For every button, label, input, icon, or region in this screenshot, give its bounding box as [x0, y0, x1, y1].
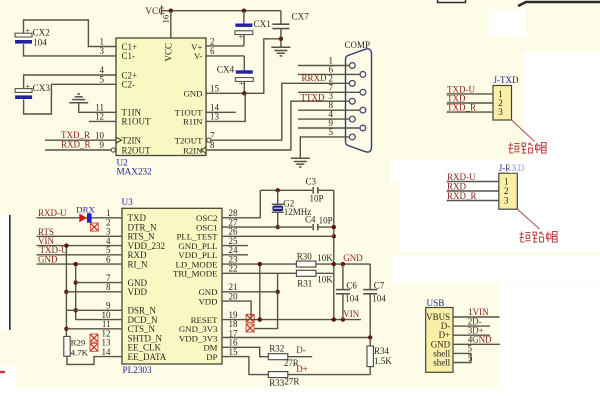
wire CX7 node to U2 GND pin15	[206, 39, 281, 94]
connector USB body	[426, 308, 453, 373]
wire U3 TRI_MODE pin22 through R31	[222, 272, 296, 274]
svg-text:10: 10	[95, 130, 105, 140]
svg-text:104: 104	[345, 294, 359, 304]
connector J-TXD body	[493, 86, 512, 121]
svg-text:1: 1	[504, 177, 509, 187]
wire U3 EE_DATA pin14 to R29 bottom	[67, 356, 122, 364]
junction GND bus pin7	[74, 280, 78, 284]
svg-text:C1-: C1-	[122, 51, 136, 61]
svg-text:22: 22	[229, 264, 238, 274]
resistor R29	[64, 336, 70, 356]
sheet border line left	[9, 215, 11, 330]
wire U2 R1OUT pin12 stub	[89, 120, 116, 122]
wire U3 GND pin7	[76, 282, 122, 284]
wire COMP pin8 stub	[298, 109, 360, 111]
wire GND to U3 RI_N pin6	[37, 263, 123, 265]
junction pin17 row / C7 / R34	[368, 335, 372, 339]
junction VIN row osc vertical	[332, 317, 336, 321]
capacitor C6	[342, 264, 344, 290]
wire U3 LD_MODE pin23 through R30	[222, 263, 296, 265]
wire USB D+ pin3 stub	[453, 334, 490, 336]
wire RXD_R to J-RXD pin3	[447, 200, 499, 202]
no-connect X at U3 GND_3V3 pin18	[246, 324, 254, 332]
svg-text:R1OUT: R1OUT	[122, 117, 152, 127]
wire TXD_R to J-TXD pin3	[447, 111, 493, 113]
svg-text:R29: R29	[71, 338, 86, 348]
svg-text:9: 9	[100, 140, 105, 150]
svg-text:PL2303: PL2303	[123, 365, 153, 375]
white canvas gap right C	[392, 255, 600, 283]
svg-text:CX4: CX4	[217, 65, 235, 75]
svg-text:5: 5	[100, 75, 105, 85]
white canvas gap bottom-right	[499, 284, 600, 396]
resistor R31	[296, 270, 316, 276]
junction G2 bottom	[276, 225, 280, 229]
wire COMP pin1 stub	[298, 65, 350, 67]
wire LD_MODE tap down to VIN row	[259, 264, 261, 320]
svg-text:MAX232: MAX232	[117, 167, 153, 177]
wire U3 DP pin15 to R33	[222, 357, 268, 375]
svg-text:RXD-U: RXD-U	[38, 208, 67, 218]
note text short-circuit cap 2	[520, 232, 558, 243]
svg-text:TXD_R: TXD_R	[447, 103, 476, 113]
svg-text:5: 5	[468, 353, 473, 363]
wire TRI_MODE tap down to GND_3V3	[254, 273, 278, 328]
svg-text:16: 16	[160, 14, 170, 23]
white canvas gap right B	[524, 52, 600, 168]
crystal G2	[277, 190, 279, 204]
no-connect X at U3 SHTD_N pin12	[90, 334, 98, 342]
wire GND vertical bus	[75, 264, 77, 320]
wire VIN to U3 VDD_232 pin4	[37, 245, 123, 247]
junction CX7/ground	[279, 37, 283, 41]
junction G2 top	[276, 188, 280, 192]
white bottom band	[0, 387, 600, 396]
svg-text:RXD_R: RXD_R	[447, 191, 477, 201]
inversion bubble U2 T2OUT	[207, 138, 211, 142]
svg-text:GND: GND	[472, 335, 492, 345]
op-amp U2 MAX232 body	[116, 38, 206, 156]
svg-text:20: 20	[229, 291, 239, 301]
no-connect X at U3 EE_CLK pin13	[90, 343, 98, 351]
junction osc vertical C4	[332, 225, 336, 229]
wire U3 DSR_N pin9	[66, 309, 122, 311]
svg-text:U3: U3	[122, 197, 134, 207]
svg-text:USB: USB	[427, 298, 445, 308]
svg-text:T2IN: T2IN	[122, 136, 142, 146]
white canvas gap middle-right	[400, 183, 600, 252]
capacitor CX3	[15, 89, 32, 93]
wire CX3 top to U2 C2+ pin4	[24, 75, 116, 89]
svg-text:10P: 10P	[319, 215, 333, 225]
wire U3 VDD_PLL pin24 stub	[222, 254, 248, 256]
svg-text:6: 6	[210, 46, 215, 56]
wire U2 R1IN pin13 to GND row	[206, 93, 245, 121]
svg-text:+: +	[25, 81, 30, 91]
capacitor CX1	[243, 11, 245, 24]
svg-text:1.5K: 1.5K	[374, 356, 392, 366]
junction CX4/GND row	[242, 91, 246, 95]
resistor R32	[268, 354, 288, 360]
COMP pin circles right column	[360, 72, 366, 78]
wire CX3 bottom to U2 C2- pin5	[24, 84, 116, 114]
wire COMP pin9 stub	[298, 127, 360, 129]
COMP pin circles left column	[349, 63, 355, 69]
wire oscillator ground vertical	[333, 190, 335, 319]
svg-text:C2-: C2-	[122, 80, 136, 90]
junction GND bus pin6	[74, 262, 78, 266]
wire U2 pin16 to VCC rail	[170, 11, 172, 38]
svg-text:T2OUT: T2OUT	[175, 136, 203, 146]
wire U3 DCD_N pin10	[76, 319, 122, 321]
resistor R33	[268, 372, 288, 378]
svg-text:J-TXD: J-TXD	[494, 75, 519, 85]
wire OSC2 row through C3	[260, 189, 312, 191]
svg-text:R2OUT: R2OUT	[122, 145, 152, 155]
pointer line to short-cap note 1	[512, 120, 535, 142]
svg-text:3: 3	[504, 196, 509, 206]
svg-text:VDD: VDD	[198, 296, 217, 306]
svg-text:RRXD: RRXD	[302, 73, 328, 83]
svg-text:15: 15	[229, 347, 239, 357]
svg-text:RXD-U: RXD-U	[447, 172, 476, 182]
wire U3 CTS_N pin11	[66, 328, 122, 330]
wire VIN vertical bus to R29	[65, 246, 67, 337]
svg-text:DRX: DRX	[76, 205, 95, 215]
resistor R34	[369, 338, 371, 347]
wire TXD-U to U3 RXD pin5	[37, 254, 123, 256]
wire RXD-U to J-RXD pin1	[447, 181, 499, 183]
svg-text:R33: R33	[269, 378, 285, 388]
svg-text:R30: R30	[297, 251, 313, 261]
wire TXD_R to U2 T2IN pin10	[45, 139, 116, 141]
svg-text:8: 8	[106, 282, 111, 292]
connector J-RXD body	[499, 173, 518, 209]
wire RXD to J-RXD pin2	[447, 190, 499, 192]
junction TRI tap / pin21 row	[275, 290, 279, 294]
wire R31 right end	[316, 272, 334, 274]
wire RXD-U to U3 TXD pin1	[37, 217, 123, 219]
svg-text:10K: 10K	[317, 274, 333, 284]
svg-text:R32: R32	[269, 343, 284, 353]
wire U3 VDD pin20 jog down	[222, 301, 251, 320]
mcu U3 PL2303 body	[122, 208, 222, 364]
capacitor CX4	[243, 56, 245, 70]
wire U2 V- pin6 to CX4	[206, 55, 244, 57]
black line top-right	[518, 2, 600, 6]
junction VIN bus pin4	[64, 243, 68, 247]
wire COMP pin5 to ground	[300, 137, 349, 158]
no-connect X at U3 RESET pin19	[246, 314, 254, 322]
junction R30 row / C6 tap	[341, 262, 345, 266]
wire U3 PLL_TEST pin26	[222, 235, 334, 237]
wire RTS to U3 RTS_N pin3	[37, 235, 123, 237]
svg-text:3: 3	[100, 46, 105, 56]
svg-text:shell: shell	[433, 358, 450, 368]
wire COMP pin7 stub	[298, 91, 360, 93]
white canvas gap middle-right upper strip	[390, 160, 600, 183]
svg-text:15: 15	[210, 84, 220, 94]
white redraw artifact over J-RXD designator	[509, 162, 527, 173]
svg-text:27R: 27R	[284, 377, 299, 387]
svg-text:10K: 10K	[317, 253, 333, 263]
svg-text:R34: R34	[374, 346, 390, 356]
svg-text:R31: R31	[297, 278, 312, 288]
svg-text:13: 13	[210, 112, 220, 122]
wire VIN row	[222, 319, 361, 321]
svg-text:CX2: CX2	[33, 28, 51, 38]
pointer line to short-cap note 2	[517, 209, 539, 229]
resistor R30	[296, 261, 316, 267]
junction VIN row tap	[258, 317, 262, 321]
junction R30 row / osc vertical	[332, 262, 336, 266]
junction osc vertical pin26	[332, 234, 336, 238]
wire R34 bottom to DP net	[369, 367, 371, 375]
wire U3 GND_PLL pin25 stub	[222, 245, 248, 247]
svg-text:+: +	[239, 78, 244, 88]
svg-text:GND: GND	[343, 253, 363, 263]
wire ground to U2 T1IN pin11	[79, 103, 116, 113]
svg-text:RI_N: RI_N	[128, 259, 149, 269]
wire USB GND pin4 stub	[453, 343, 500, 345]
svg-text:CX3: CX3	[33, 83, 51, 93]
wire U2 T1OUT pin14 stub	[206, 111, 236, 113]
capacitor CX7	[280, 11, 282, 25]
svg-text:GND: GND	[183, 89, 202, 99]
svg-text:12: 12	[95, 112, 104, 122]
ground symbol at U2 T1IN	[69, 94, 88, 103]
svg-text:C7: C7	[374, 281, 385, 291]
wire U2 R2IN to COMP pin3 (TTXD)	[206, 101, 350, 150]
wire R30 to GND node	[316, 263, 370, 265]
wire VCC rail	[162, 10, 281, 12]
svg-text:RXD_R: RXD_R	[61, 140, 91, 150]
svg-text:104: 104	[372, 294, 386, 304]
inversion bubble U2 R2OUT	[111, 148, 115, 152]
wire R32 to D- label	[288, 356, 312, 358]
svg-text:VDD: VDD	[128, 287, 148, 297]
svg-text:RXD: RXD	[447, 182, 467, 192]
wire TXD-U to J-TXD pin1	[447, 93, 493, 95]
junction VIN bus pin8	[64, 290, 68, 294]
svg-text:+: +	[239, 32, 244, 42]
svg-text:GND: GND	[38, 254, 58, 264]
svg-text:C3: C3	[306, 176, 317, 186]
ground symbol below COMP	[291, 158, 310, 167]
svg-text:10P: 10P	[310, 194, 324, 204]
svg-text:14: 14	[102, 347, 112, 357]
svg-text:D-: D-	[296, 345, 306, 355]
capacitor C7	[369, 264, 371, 290]
svg-text:104: 104	[33, 38, 47, 48]
svg-text:3: 3	[498, 107, 503, 117]
connector COMP DB9 outline	[346, 49, 372, 152]
white left sheet-edge strip	[0, 215, 9, 330]
svg-text:CX1: CX1	[254, 19, 272, 29]
wire USB VBUS pin1 stub	[453, 316, 500, 318]
svg-text:VCC: VCC	[164, 43, 174, 62]
wire CX1 to U2 V+ pin2	[206, 45, 244, 47]
wire R33 to R34 bottom (D+ net)	[288, 374, 370, 376]
svg-text:CX7: CX7	[292, 12, 310, 22]
wire U3 VDD pin8	[66, 291, 122, 293]
svg-text:C4: C4	[305, 215, 316, 225]
wire USB D- pin2 stub	[453, 325, 490, 327]
cut-off component box top edge	[438, 0, 466, 3]
svg-text:C6: C6	[346, 281, 357, 291]
svg-text:TRI_MODE: TRI_MODE	[173, 269, 217, 279]
wire CX2 top to U2 C1+ pin1	[24, 20, 117, 47]
svg-text:R1IN: R1IN	[183, 117, 203, 127]
svg-text:TXD_R: TXD_R	[61, 130, 90, 140]
svg-text:D+: D+	[296, 364, 308, 374]
svg-text:DP: DP	[206, 352, 217, 362]
junction VCC/CX1	[242, 9, 246, 13]
junction VIN row C6	[341, 317, 345, 321]
svg-text:+: +	[25, 25, 30, 35]
junction tap top	[258, 262, 262, 266]
U2 pin arrow R2IN	[201, 147, 206, 153]
junction GND bus pin9	[74, 308, 78, 312]
wire RXD_R to U2 R2OUT pin9	[45, 149, 111, 151]
wire U3 GND pin21	[222, 291, 278, 293]
wire U3 OSC1 pin27 through C4	[222, 226, 312, 228]
wire U3 DM pin16 to R32	[222, 347, 268, 356]
svg-text:4.7K: 4.7K	[71, 347, 89, 357]
junction VIN bus pin11	[64, 327, 68, 331]
wire COMP pin4 stub	[298, 118, 350, 120]
wire U3 OSC2 pin28 riser	[222, 190, 260, 218]
wire U2 T2OUT to COMP pin2 (RRXD)	[211, 83, 350, 140]
ground symbol near CX7	[271, 47, 290, 56]
diode DRX	[79, 214, 87, 223]
white bottom-left corner	[0, 366, 16, 396]
wire CX2 bottom to U2 C1- pin3	[24, 44, 117, 56]
svg-text:VIN: VIN	[343, 309, 359, 319]
no-connect X at U3 DTR_N pin2	[90, 223, 98, 231]
capacitor CX2	[15, 33, 32, 37]
red mark fragment left edge	[0, 371, 5, 373]
wire USB shell pin5 bracket	[453, 353, 471, 362]
white canvas gap top-right A	[489, 9, 526, 36]
svg-text:EE_DATA: EE_DATA	[128, 352, 167, 362]
wire COMP pin6 stub	[298, 73, 360, 75]
svg-text:6: 6	[106, 254, 111, 264]
wire U3 VDD_3V3 pin17 row	[222, 337, 370, 339]
U2 pin arrow T2IN	[116, 137, 122, 143]
wire TXD to J-TXD pin2	[447, 102, 493, 104]
svg-text:2: 2	[504, 186, 509, 196]
note text short-circuit cap 1	[509, 143, 547, 154]
junction VCC/pin16	[169, 9, 173, 13]
svg-text:V-: V-	[194, 51, 203, 61]
svg-text:R2IN: R2IN	[183, 145, 203, 155]
